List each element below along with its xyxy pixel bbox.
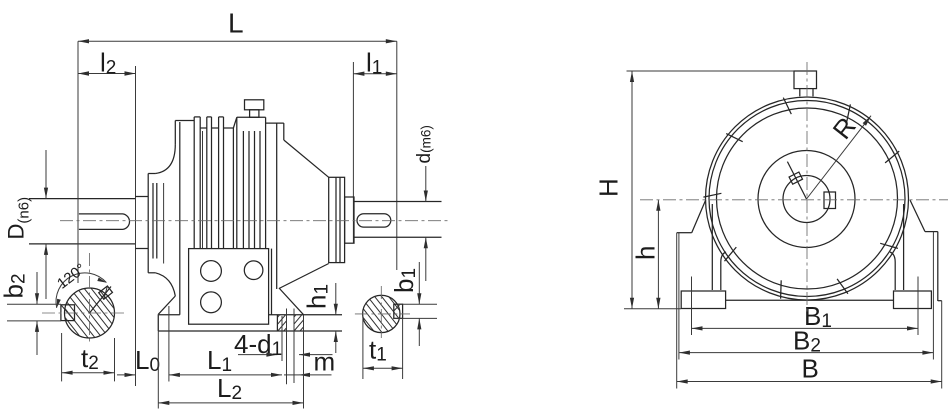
right section top [266,122,284,124]
svg-text:B: B [802,354,819,384]
dimension L2 [158,402,303,404]
gear housing left edge [174,121,176,145]
oil filler plug [245,100,264,110]
dimension h1 [335,283,337,315]
dimension b2 [7,303,61,305]
svg-text:L: L [228,8,244,39]
base top line [158,314,180,316]
dimension 4-d1 leader [238,354,277,356]
rim tick marks [885,151,899,163]
L1 right extension line [281,316,283,361]
base section hatch right of bolt hole [294,315,296,317]
L2 extension lines [157,314,159,408]
right foot flare [279,288,304,315]
dimension m pointers [284,374,299,376]
svg-text:m: m [314,347,336,377]
centerlines right view [640,199,948,201]
center raised block [232,128,234,249]
cooling fin 1 [193,117,195,249]
shaft bore circle [783,176,830,223]
second keyway on bore [789,172,802,184]
l1 left extension line [352,62,354,243]
left foot pad [681,291,725,309]
H/h bottom extension line [624,308,681,310]
dimension D(n6) [45,150,47,199]
second keyway at 120 deg [90,287,112,314]
keyway slot in section (b1) [394,304,403,318]
housing right slope [284,140,329,177]
housing outer rim circle [706,97,909,300]
dimension d(m6) [425,166,427,202]
plate hole 1 [201,261,222,282]
dimension L [78,40,397,42]
dimension B1 [692,327,919,329]
left shaft end face / L extension line [77,41,79,283]
foundation bolt hole lines [286,309,288,385]
output shaft keyway [357,214,391,227]
svg-text:H: H [594,178,624,197]
radius R leader [807,116,872,199]
right side wall [910,200,925,232]
left foot edge [157,314,159,331]
dimension L1 [169,374,282,376]
vent cap [794,71,817,89]
base bottom line [158,330,342,332]
L right extension line / output shaft end [396,41,398,270]
base section hatch left of bolt hole [277,315,279,318]
housing top edge left [175,120,194,122]
left bearing cover [135,196,148,198]
step ring right [345,197,354,243]
plate hole 3 [201,292,222,313]
dimension B [677,381,942,383]
intermediate circle [758,151,855,248]
dimension H [627,70,795,72]
interior line right of plate [271,249,273,315]
bore keyway [824,192,836,209]
cooling fin 2 [206,117,208,249]
web lines between fins [200,127,207,129]
base front plate with holes [189,249,269,325]
boss transition curves [155,144,175,173]
keyway slot in section (b2) [61,305,75,321]
web line between feet [726,299,894,301]
dimension l1 [353,73,396,75]
left foot flare [158,296,175,314]
centerline left view [60,220,448,222]
dimension t1 [362,316,364,379]
plate hole 2 [244,261,263,280]
dimension h [657,200,659,309]
B1 extension lines [691,277,693,336]
keyway direction line [787,162,806,199]
housing underside slant [279,264,329,289]
dimension t2 [61,333,63,381]
rib between fins [202,131,204,249]
dimension L0 [117,374,136,376]
cooling fin 3 [218,117,220,249]
dimension B2 [679,352,934,354]
120 degree arc [56,273,106,308]
ribs on center block [242,131,244,249]
svg-text:h: h [631,246,661,260]
left shaft keyway (plan) [79,214,130,230]
left side wall [692,200,706,233]
dimension l2 [78,73,136,75]
dimension b1 [403,303,437,305]
centerlines output section circle [380,286,382,338]
input shaft (left, D) [29,198,136,200]
base section boundary [276,315,278,331]
rim circle 3 [717,108,898,289]
output shaft (right, d) [354,201,442,203]
left housing boss face [147,174,149,273]
output bearing cover (right flange) [329,177,345,262]
L0/L1 shared extension line [168,306,170,382]
right foot pad [894,291,932,309]
l2 extension line (bearing cover face) [135,66,137,386]
centerlines input section circle [89,253,91,344]
rim circle 2 [709,101,905,297]
